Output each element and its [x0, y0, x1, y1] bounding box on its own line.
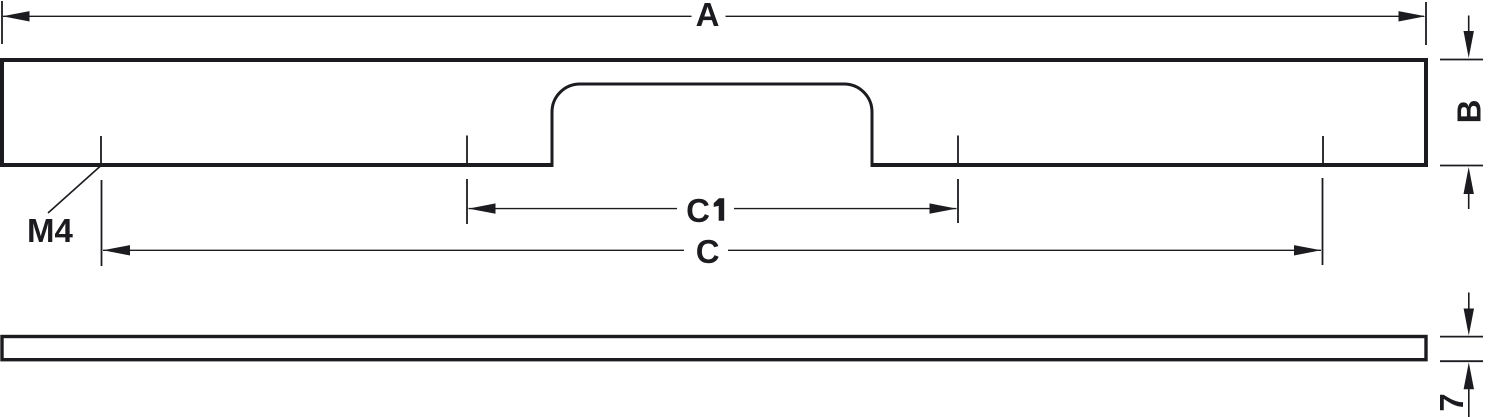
dimension C line right segment: [728, 249, 1321, 251]
dimension B bottom arrow head: [1464, 167, 1474, 194]
svg-text:M4: M4: [27, 212, 73, 249]
hole tick 4: [1322, 136, 1324, 166]
dimension B tick top: [1440, 59, 1483, 61]
dimension B tick bottom: [1440, 165, 1483, 167]
dimension 7 tick top: [1440, 336, 1483, 338]
dimension 7 tick bottom: [1440, 360, 1483, 362]
dimension C1 left arrow: [469, 203, 496, 213]
dimension A left arrow: [3, 11, 30, 21]
label C1: digit 1 (no-foot style): [714, 198, 725, 221]
dimension 7 top arrow shaft: [1468, 293, 1470, 311]
dimension C line left segment: [103, 249, 684, 251]
hole tick 1: [100, 136, 102, 166]
dimension C1 extension line left: [466, 179, 468, 224]
svg-text:7: 7: [1433, 393, 1470, 411]
dimension C1 line left segment: [469, 208, 678, 210]
dimension B top arrow head: [1464, 31, 1474, 58]
dimension C1 line right segment: [734, 208, 957, 210]
dimension A extension tick right: [1425, 2, 1427, 45]
dimension C extension line left: [101, 180, 103, 266]
handle grip profile: [552, 84, 872, 167]
dimension C1 extension line right: [957, 179, 959, 223]
dimension A line left segment: [3, 15, 692, 17]
svg-text:C: C: [686, 192, 710, 229]
dimension B top arrow shaft: [1468, 16, 1470, 34]
hole tick 2: [466, 136, 468, 166]
svg-text:B: B: [1451, 100, 1488, 124]
dimension 7 bottom arrow head: [1464, 362, 1474, 389]
M4 leader line: [48, 166, 101, 213]
dimension C1 right arrow: [930, 203, 957, 213]
dimension 7 bottom arrow shaft: [1468, 388, 1470, 417]
dimension A extension tick left: [1, 1, 3, 44]
svg-text:A: A: [696, 0, 720, 33]
dimension C right arrow: [1294, 245, 1321, 255]
svg-text:C: C: [696, 233, 720, 270]
dimension B bottom arrow shaft: [1468, 193, 1470, 209]
dimension C left arrow: [103, 245, 130, 255]
dimension A line right segment: [726, 15, 1425, 17]
dimension C extension line right: [1322, 178, 1324, 265]
front view outline: [2, 60, 1426, 165]
dimension A right arrow: [1399, 11, 1426, 21]
dimension 7 top arrow head: [1464, 309, 1474, 336]
side view bar: [2, 337, 1426, 360]
hole tick 3: [957, 136, 959, 166]
